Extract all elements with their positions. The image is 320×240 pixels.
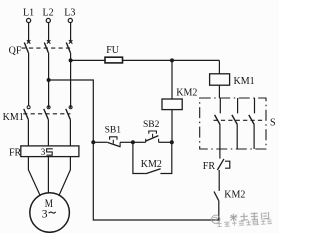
svg-text:FR: FR: [9, 147, 22, 158]
svg-text:FR: FR: [203, 161, 216, 172]
svg-text:3: 3: [42, 208, 48, 220]
svg-text:KM1: KM1: [234, 76, 255, 87]
svg-text:KM2: KM2: [176, 88, 197, 99]
svg-text:FU: FU: [106, 45, 120, 56]
svg-text:SB1: SB1: [105, 126, 122, 136]
svg-text:L2: L2: [43, 7, 54, 18]
svg-text:KM1: KM1: [3, 112, 24, 123]
svg-text:KM2: KM2: [141, 159, 162, 170]
svg-text:SB2: SB2: [143, 120, 160, 130]
svg-text:QF: QF: [9, 45, 22, 56]
svg-text:S: S: [270, 117, 276, 128]
svg-text:L3: L3: [64, 7, 75, 18]
svg-text:L1: L1: [23, 7, 34, 18]
svg-text:KM2: KM2: [224, 189, 245, 200]
svg-text:3: 3: [41, 148, 46, 158]
